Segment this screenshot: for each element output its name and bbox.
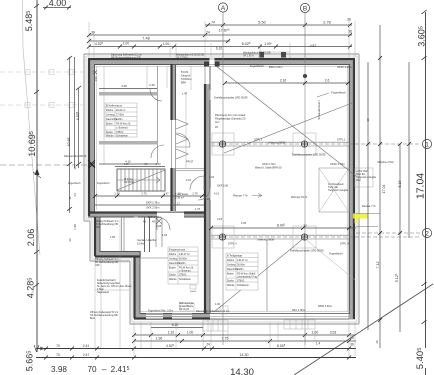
beam axis2 y237 xyxy=(211,235,421,239)
svg-text:1.00: 1.00 xyxy=(163,42,169,46)
right main chain xyxy=(422,10,427,375)
svg-text:Decke: Decke xyxy=(227,280,234,283)
svg-text:36: 36 xyxy=(348,30,352,34)
svg-text:5.50: 5.50 xyxy=(258,21,265,25)
svg-text:3.98: 3.98 xyxy=(51,365,67,374)
mid small dim row y207 right xyxy=(214,192,220,196)
svg-text:1.76: 1.76 xyxy=(192,192,198,196)
annotation kellerlichtschacht xyxy=(97,279,132,294)
svg-text:OKR 2.70m: OKR 2.70m xyxy=(262,162,276,166)
svg-text:–: – xyxy=(102,365,107,374)
duct shaft x156-162 xyxy=(156,218,162,247)
svg-text:VK 1.00 h: VK 1.00 h xyxy=(243,55,254,58)
svg-text:Fugenblech: Fugenblech xyxy=(331,91,346,95)
keller shelf bar lower xyxy=(99,141,157,145)
svg-text:Wände: Wände xyxy=(106,135,114,138)
svg-text:74: 74 xyxy=(211,21,215,25)
label 4.00 top cut xyxy=(43,0,71,10)
svg-text:Umfang: Umfang xyxy=(106,114,115,117)
svg-text:7.12: 7.12 xyxy=(376,262,380,269)
big site diagonal bottom-right xyxy=(294,284,433,375)
svg-text:2.41: 2.41 xyxy=(83,344,90,348)
top chain y35 xyxy=(87,29,352,38)
svg-text:3.48: 3.48 xyxy=(121,84,127,88)
svg-text:Fugenblech: Fugenblech xyxy=(97,182,110,185)
svg-text:Drehflanschanker LRD 50/30: Drehflanschanker LRD 50/30 xyxy=(290,249,324,253)
room table garage 2 xyxy=(226,253,258,290)
annotation shaft xyxy=(328,183,349,192)
wall left outer upper xyxy=(89,58,97,216)
bottom chain y348 xyxy=(36,343,356,351)
svg-text:WKR 2.60m: WKR 2.60m xyxy=(318,304,332,308)
svg-text:36: 36 xyxy=(347,18,351,22)
svg-text:14.30: 14.30 xyxy=(230,367,254,375)
window bottom wall left xyxy=(158,313,200,319)
keller door arc right lower xyxy=(151,145,164,158)
annotation axis2 row xyxy=(228,238,349,256)
entrance door gap top wall xyxy=(210,58,215,66)
waermepumpe box xyxy=(180,303,194,311)
wall right outer xyxy=(348,59,355,319)
svg-text:1.50: 1.50 xyxy=(94,76,98,82)
axis B circle and line xyxy=(300,3,309,345)
svg-text:Geräte- Unterflur: Geräte- Unterflur xyxy=(137,238,157,242)
svg-text:4.285: 4.285 xyxy=(26,278,36,299)
svg-text:5.665: 5.665 xyxy=(25,351,35,372)
svg-text:10.695: 10.695 xyxy=(27,131,37,157)
svg-text:Fugenblech: Fugenblech xyxy=(68,182,81,185)
svg-text:2.78: 2.78 xyxy=(323,21,330,25)
bottom witness lines xyxy=(95,219,355,356)
interior line x267 xyxy=(266,240,268,311)
svg-text:STB-D.: STB-D. xyxy=(237,280,245,283)
svg-text:STB-D.: STB-D. xyxy=(179,274,187,277)
svg-text:1.05: 1.05 xyxy=(241,221,247,225)
top chain y41 xyxy=(87,37,230,44)
window pier bottom mid xyxy=(220,306,228,314)
svg-text:17.04: 17.04 xyxy=(382,185,386,194)
svg-text:BRH 1.00m: BRH 1.00m xyxy=(269,65,282,69)
svg-text:Wände: Wände xyxy=(227,284,235,287)
svg-text:Drehflanschanker LRD 50/30: Drehflanschanker LRD 50/30 xyxy=(214,96,248,100)
mid dim rows above H1 xyxy=(95,212,204,219)
svg-text:27.95m: 27.95m xyxy=(116,114,124,117)
f-schleuse top line xyxy=(176,169,204,171)
svg-text:Unterzug NEW: Unterzug NEW xyxy=(268,141,286,145)
keller closet line x157 xyxy=(157,66,159,164)
left main dimension chain xyxy=(33,0,41,352)
wall top outer xyxy=(88,59,355,67)
svg-text:Rampe ±0 %: Rampe ±0 % xyxy=(291,195,308,199)
annotation waermepumpe xyxy=(179,302,195,311)
svg-text:17.04: 17.04 xyxy=(415,173,427,199)
svg-text:146.47 m²: 146.47 m² xyxy=(179,253,190,256)
svg-text:UKF: UKF xyxy=(95,264,100,267)
wall bottom outer xyxy=(134,312,350,320)
annotation top wall left xyxy=(111,54,142,60)
svg-text:Erdgeschoss: Erdgeschoss xyxy=(169,248,186,252)
svg-text:Drehflanschanker LRD 50/30: Drehflanschanker LRD 50/30 xyxy=(292,153,326,157)
door chevrons V1 xyxy=(176,119,188,159)
svg-text:Fläche: Fläche xyxy=(227,259,235,262)
bottom small room dims xyxy=(110,217,247,239)
svg-text:Schalbeton: Schalbeton xyxy=(179,278,192,281)
svg-text:Umfang: Umfang xyxy=(169,258,178,261)
svg-text:20el.: 20el. xyxy=(356,179,362,182)
svg-text:u. Bodenpl.: u. Bodenpl. xyxy=(116,127,128,130)
svg-text:4.87: 4.87 xyxy=(310,44,317,48)
door jamb piers top wall xyxy=(204,62,220,67)
svg-text:4.00: 4.00 xyxy=(49,0,67,8)
svg-text:OK ±0.00: OK ±0.00 xyxy=(179,308,190,311)
svg-text:2.30: 2.30 xyxy=(149,83,155,87)
svg-text:Ringdrainage (Sanads) 20: Ringdrainage (Sanads) 20 xyxy=(215,117,246,121)
svg-text:UKF: UKF xyxy=(95,226,100,229)
svg-text:OKF 2.60: OKF 2.60 xyxy=(217,184,229,188)
svg-text:PS-W 4cm St.: PS-W 4cm St. xyxy=(116,123,131,126)
svg-text:5.485: 5.485 xyxy=(24,11,34,32)
wall gray fill bands xyxy=(88,59,355,320)
svg-text:OKFF 2.60m: OKFF 2.60m xyxy=(337,65,352,69)
svg-text:BRH: BRH xyxy=(181,82,186,85)
svg-text:STPL 4: STPL 4 xyxy=(228,242,237,246)
svg-text:1.98: 1.98 xyxy=(73,224,77,230)
parapet protrusion top xyxy=(259,52,290,58)
svg-text:1.4: 1.4 xyxy=(316,342,321,346)
svg-text:70: 70 xyxy=(87,365,97,374)
svg-text:Fläche: Fläche xyxy=(106,109,114,112)
stair upper dim row xyxy=(95,201,204,210)
top chain y25 xyxy=(205,18,352,28)
svg-text:Rampe 7 %: Rampe 7 % xyxy=(233,194,248,198)
svg-text:2.26m: 2.26m xyxy=(116,118,123,121)
window segment bottom wall a xyxy=(146,314,163,319)
svg-text:Tiefgrund umlegba: Tiefgrund umlegba xyxy=(328,189,349,192)
interior wall V1 x171 xyxy=(172,64,176,211)
svg-text:7.48: 7.48 xyxy=(142,37,149,41)
svg-text:STPL 4: STPL 4 xyxy=(340,242,349,246)
svg-text:Boden: Boden xyxy=(169,267,177,270)
svg-text:A: A xyxy=(221,5,226,12)
svg-text:Unterbodenpl. Fug.: Unterbodenpl. Fug. xyxy=(237,276,258,279)
upper room dim line y83 xyxy=(223,79,350,86)
svg-text:70: 70 xyxy=(56,344,60,348)
room table garage 1 xyxy=(168,247,198,284)
right wall annex box xyxy=(355,168,373,187)
big bottom labels xyxy=(51,365,254,375)
svg-text:36: 36 xyxy=(73,166,77,170)
svg-text:70: 70 xyxy=(56,353,60,357)
interior witness lines left rooms xyxy=(104,66,191,168)
stair mid dim row xyxy=(93,192,204,199)
annotation F-Schleuse room xyxy=(175,192,189,200)
svg-text:1.32: 1.32 xyxy=(168,331,175,335)
svg-text:6.10: 6.10 xyxy=(216,47,222,51)
svg-text:30: 30 xyxy=(303,224,307,228)
svg-text:Dämmung 2cm mit umlauf.: Dämmung 2cm mit umlauf. xyxy=(215,113,246,117)
annotation anchor row axis1 xyxy=(214,96,346,157)
svg-text:5.405: 5.405 xyxy=(415,348,426,370)
column A2 xyxy=(219,234,226,241)
annotation top wall mid xyxy=(176,54,204,60)
keller room small dims xyxy=(93,71,157,165)
svg-text:Dämmstreifen DB 36: Dämmstreifen DB 36 xyxy=(64,155,87,158)
column A1 xyxy=(219,141,226,148)
interior wall H mid y258 xyxy=(140,257,168,259)
svg-text:6.10: 6.10 xyxy=(172,323,179,327)
svg-text:36: 36 xyxy=(375,340,379,344)
staircase xyxy=(117,169,165,191)
svg-text:146.47 m²: 146.47 m² xyxy=(237,259,248,262)
svg-text:7.75: 7.75 xyxy=(222,337,229,341)
svg-text:Dämmung Kellerwand 12 cm: Dämmung Kellerwand 12 cm xyxy=(196,309,229,313)
svg-text:Wand lt. Statik BRH 50: Wand lt. Statik BRH 50 xyxy=(255,166,282,170)
svg-text:24: 24 xyxy=(206,343,210,347)
svg-text:Nagelwand: Nagelwand xyxy=(97,291,110,294)
svg-text:2.47: 2.47 xyxy=(83,353,90,357)
right secondary verticals xyxy=(366,25,411,348)
svg-text:4.15: 4.15 xyxy=(125,160,131,164)
door arc V1 xyxy=(176,133,190,147)
keller door arc right upper xyxy=(150,89,162,101)
top chain y46 xyxy=(87,42,352,51)
svg-text:Büro: Büro xyxy=(90,317,96,320)
svg-text:1.18: 1.18 xyxy=(162,233,168,237)
svg-text:Fugenblech: Fugenblech xyxy=(329,252,343,256)
keller shelf bar upper xyxy=(99,92,157,96)
svg-text:STPL 1: STPL 1 xyxy=(337,138,346,142)
svg-text:Decke: Decke xyxy=(169,274,176,277)
column dot top wall axis B xyxy=(303,74,307,78)
svg-text:Schalbeton: Schalbeton xyxy=(237,284,250,287)
exterior well below bottom wall 1 xyxy=(203,320,228,331)
terrain slant line left xyxy=(23,0,41,255)
svg-text:2.6: 2.6 xyxy=(325,79,330,83)
svg-text:Fugenblech: Fugenblech xyxy=(250,64,264,68)
svg-text:1.76: 1.76 xyxy=(195,207,201,211)
dashed line y164 to wall xyxy=(0,162,95,168)
svg-text:Boden: Boden xyxy=(227,273,235,276)
svg-text:8 Teilgarage: 8 Teilgarage xyxy=(227,254,243,258)
svg-text:Unterzug NEW: Unterzug NEW xyxy=(257,238,275,242)
annotation left oeffnung 2 xyxy=(95,258,119,267)
svg-text:5.24m: 5.24m xyxy=(137,242,144,246)
column pads xyxy=(212,133,316,248)
room table keller xyxy=(105,103,137,138)
exterior ledge below bottom wall 2 xyxy=(284,320,315,329)
svg-text:Wkn 1.50m: Wkn 1.50m xyxy=(292,308,305,312)
svg-text:1.47: 1.47 xyxy=(182,92,188,96)
column B1 xyxy=(301,141,308,148)
svg-text:Fugenblech 98m 1.00m: Fugenblech 98m 1.00m xyxy=(148,310,173,313)
svg-text:14.30: 14.30 xyxy=(240,353,249,357)
svg-text:5.16: 5.16 xyxy=(398,181,402,188)
svg-text:3.53: 3.53 xyxy=(330,331,337,335)
small box mark below table1 xyxy=(190,285,197,293)
wall left lower mid xyxy=(95,217,100,256)
diagonal D1 upper room xyxy=(211,62,356,176)
svg-text:11: 11 xyxy=(68,196,72,199)
svg-text:DKR 2.78m: DKR 2.78m xyxy=(146,201,159,205)
bottom chain y357 xyxy=(36,353,356,360)
svg-text:WK Perimeterdämmung DB: WK Perimeterdämmung DB xyxy=(111,57,141,60)
svg-text:4m²: 4m² xyxy=(215,120,220,124)
svg-text:Ortholme 2.5cm: Ortholme 2.5cm xyxy=(377,161,394,164)
svg-text:2.26m: 2.26m xyxy=(237,268,244,271)
svg-text:4.15: 4.15 xyxy=(217,217,223,221)
svg-text:2.28: 2.28 xyxy=(156,224,162,228)
yellow highlight marker xyxy=(353,214,368,219)
svg-text:Wände: Wände xyxy=(169,278,177,281)
svg-text:18/7,5/30: 18/7,5/30 xyxy=(124,181,135,184)
left secondary chains xyxy=(67,56,81,213)
column B2 xyxy=(301,234,308,241)
diagonal D2 upper room xyxy=(224,103,352,153)
window segment bottom wall b xyxy=(172,314,192,319)
svg-text:B: B xyxy=(303,6,307,13)
svg-text:56.66m: 56.66m xyxy=(179,258,187,261)
svg-text:1.47: 1.47 xyxy=(163,192,169,196)
axis 1 circle right xyxy=(422,139,431,148)
beam axis1 y144 xyxy=(211,142,421,146)
svg-text:3.605: 3.605 xyxy=(417,26,427,47)
bottom chain y327 xyxy=(151,323,203,328)
annotation daemmung block mid xyxy=(215,113,246,129)
annotation left oeffnung 1 xyxy=(95,220,119,229)
interior wall V4 small x146 xyxy=(145,217,150,252)
svg-text:Schleuderbeton: Schleuderbeton xyxy=(317,100,321,120)
svg-text:2.75: 2.75 xyxy=(141,192,147,196)
svg-text:2.26m: 2.26m xyxy=(179,262,186,265)
svg-text:48.22 m²: 48.22 m² xyxy=(116,109,126,112)
diagonal D3 lower garage xyxy=(214,238,304,312)
diagonal D4 lower garage faint xyxy=(304,238,355,280)
rampe labels xyxy=(233,194,308,200)
svg-text:2.16: 2.16 xyxy=(280,79,287,83)
dashed site row y72 with squares xyxy=(0,70,84,75)
svg-text:1.00: 1.00 xyxy=(215,302,221,306)
svg-text:OKFF 2.70m: OKFF 2.70m xyxy=(330,162,345,166)
stair dim line above xyxy=(115,166,165,168)
annotation right annex xyxy=(356,170,377,182)
svg-text:1.65: 1.65 xyxy=(110,235,116,239)
door arc V2 xyxy=(198,188,210,200)
svg-text:B Kellerraum: B Kellerraum xyxy=(106,104,123,108)
svg-text:Umfang: Umfang xyxy=(227,264,236,267)
axis A circle and line xyxy=(218,3,227,345)
svg-text:50x50: 50x50 xyxy=(190,291,197,293)
keller window mark left wall xyxy=(88,160,95,167)
svg-text:Boden: Boden xyxy=(106,123,114,126)
svg-text:24: 24 xyxy=(207,197,211,201)
top witness lines xyxy=(89,12,355,57)
svg-text:u. Bodenpl.: u. Bodenpl. xyxy=(179,270,191,273)
garage dim line y228 xyxy=(209,224,356,231)
annotation geraete room xyxy=(137,238,157,246)
svg-text:2.06: 2.06 xyxy=(26,229,36,247)
interior wall V2 x207 main spine xyxy=(205,64,210,313)
wall step horizontal lower xyxy=(95,252,140,257)
svg-text:30: 30 xyxy=(366,118,370,122)
wall step horizontal left / H1 xyxy=(88,213,205,218)
svg-text:1.00: 1.00 xyxy=(123,42,129,46)
svg-text:36: 36 xyxy=(350,343,354,347)
svg-text:24: 24 xyxy=(206,31,210,35)
svg-text:10.88: 10.88 xyxy=(67,138,71,147)
svg-text:Schalbeton: Schalbeton xyxy=(116,135,129,138)
svg-text:2.04: 2.04 xyxy=(209,175,215,179)
svg-text:OKK 2.56m: OKK 2.56m xyxy=(146,206,159,210)
bottom chain y335 xyxy=(132,331,356,341)
dashed site row y105 with squares xyxy=(0,103,84,108)
svg-text:1.38: 1.38 xyxy=(114,192,120,196)
annotation oeffnung kellerwand bottom xyxy=(90,311,118,320)
axis 2 circle right xyxy=(356,228,432,237)
left lightwell annotation lines xyxy=(95,262,130,290)
annotation mid corridor xyxy=(181,71,192,85)
door arc H1 xyxy=(157,217,170,230)
svg-text:24: 24 xyxy=(73,193,77,197)
svg-text:1.96: 1.96 xyxy=(156,337,163,341)
svg-text:Fläche: Fläche xyxy=(169,253,177,256)
bottom chain y341 xyxy=(132,337,356,346)
svg-text:UK 17.50 h: UK 17.50 h xyxy=(176,57,189,60)
svg-text:1.00: 1.00 xyxy=(187,331,194,335)
svg-text:2.01: 2.01 xyxy=(186,178,192,182)
room divider x122 xyxy=(122,217,125,251)
svg-text:36: 36 xyxy=(91,31,95,35)
svg-text:56.66m: 56.66m xyxy=(237,264,245,267)
svg-text:DKK 2.56m: DKK 2.56m xyxy=(148,215,161,219)
shaft square with X xyxy=(319,168,349,212)
svg-text:4.15: 4.15 xyxy=(214,192,220,196)
insulation outline around building xyxy=(84,54,359,324)
door arc corridor V2 xyxy=(190,176,204,190)
svg-text:PR 57: PR 57 xyxy=(186,160,194,164)
svg-text:Rampe 7 %: Rampe 7 % xyxy=(362,204,376,208)
svg-text:STPL 1: STPL 1 xyxy=(254,138,263,142)
wall left lowest vertical xyxy=(135,251,141,318)
svg-text:26: 26 xyxy=(68,238,72,242)
